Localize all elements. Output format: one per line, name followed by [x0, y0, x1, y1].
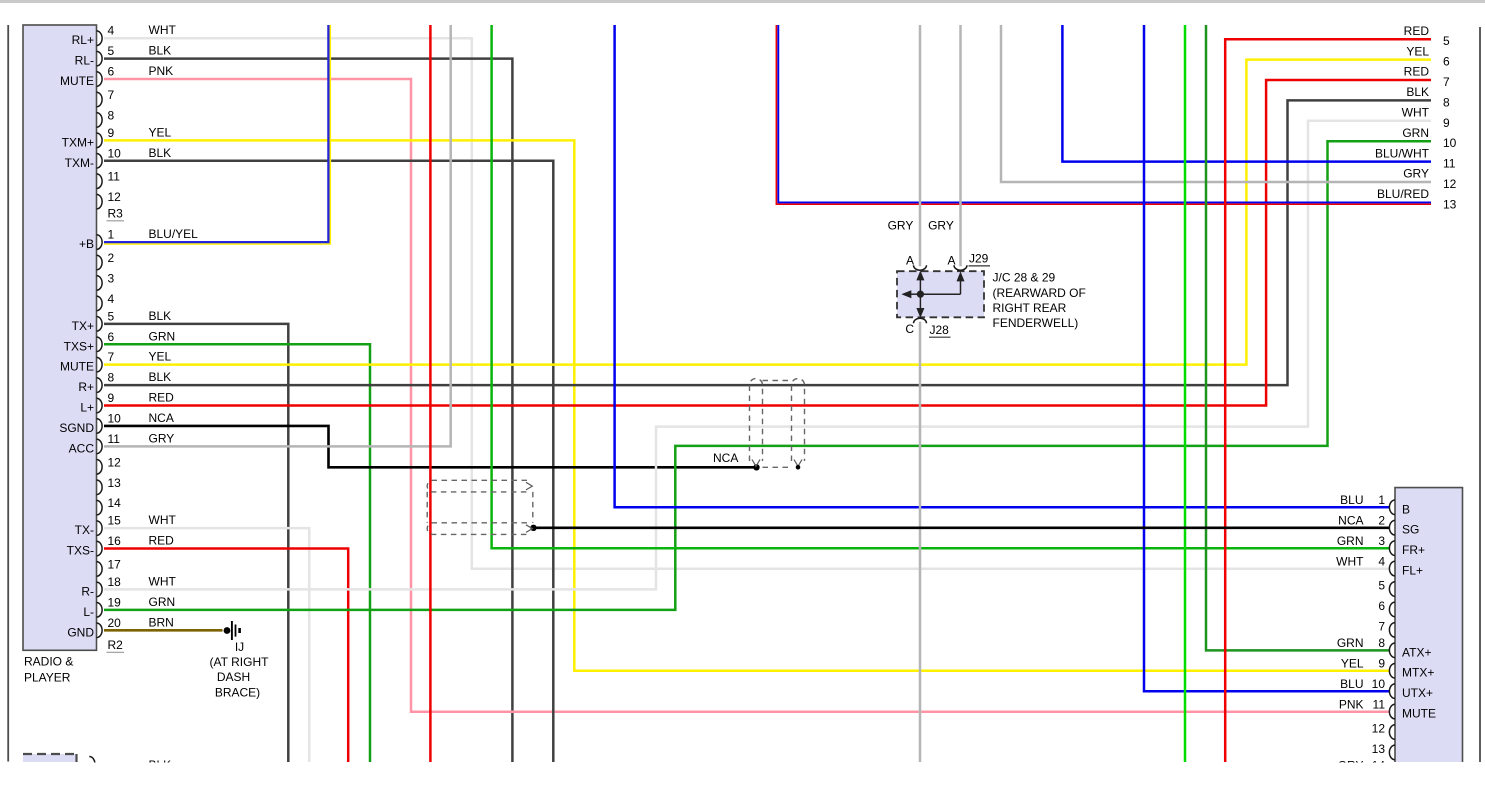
wire BLU/RED to right-top pin13 (blue)	[778, 25, 1431, 202]
wire BLK TXM- pin10 down	[104, 161, 553, 762]
svg-text:DASH: DASH	[217, 670, 250, 684]
wire WHT RL+ pin4 to right block FL+ pin4	[104, 38, 1390, 569]
wire PNK MUTE pin6 to right block MUTE pin11	[104, 79, 1390, 712]
svg-text:BLK: BLK	[149, 370, 172, 384]
wire NCA shield B drain to right block SG pin2	[534, 526, 1391, 529]
svg-text:12: 12	[1443, 177, 1457, 191]
svg-text:1: 1	[108, 228, 115, 242]
svg-text:(REARWARD OF: (REARWARD OF	[993, 286, 1086, 300]
svg-text:7: 7	[108, 350, 115, 364]
wire GRN dark x1206 to right block ATX+ pin8	[1206, 25, 1390, 650]
wire RED TXS- pin16 down	[104, 549, 348, 762]
dashed continuation connector block (bottom left)	[23, 754, 77, 762]
svg-text:PNK: PNK	[149, 64, 174, 78]
wire WHT R- pin18 to right-top pin9 WHT	[104, 121, 1431, 590]
wire YEL MUTE pin7 to right-top pin6 YEL	[104, 60, 1431, 365]
wire GRY x1001 to right-top pin12	[1001, 25, 1431, 182]
svg-text:MTX+: MTX+	[1402, 666, 1434, 680]
svg-text:RED: RED	[1404, 24, 1430, 38]
svg-text:BRN: BRN	[149, 615, 174, 629]
svg-text:12: 12	[1372, 722, 1386, 736]
svg-text:11: 11	[108, 432, 121, 446]
svg-text:6: 6	[108, 330, 115, 344]
svg-text:13: 13	[108, 476, 122, 490]
svg-text:13: 13	[1443, 197, 1457, 211]
svg-text:MUTE: MUTE	[60, 74, 94, 88]
wire BLK R+ pin8 to right-top pin8 BLK	[104, 100, 1431, 385]
svg-text:TXS+: TXS+	[64, 339, 94, 353]
wire RED right-top pin5 down	[1225, 39, 1431, 762]
svg-text:11: 11	[1373, 697, 1386, 711]
wire BLU/WHT x1062 to right-top pin11	[1062, 25, 1431, 162]
svg-text:17: 17	[108, 557, 122, 571]
connector block RADIO & PLAYER	[23, 25, 97, 650]
svg-text:NCA: NCA	[1338, 513, 1363, 527]
svg-text:FR+: FR+	[1402, 543, 1425, 557]
svg-text:BLK: BLK	[1406, 85, 1429, 99]
svg-text:BLU/WHT: BLU/WHT	[1375, 146, 1430, 160]
svg-text:TXM+: TXM+	[62, 135, 94, 149]
svg-text:YEL: YEL	[1341, 656, 1364, 670]
svg-text:R2: R2	[108, 638, 124, 652]
svg-text:8: 8	[108, 371, 115, 385]
wire BLU/YEL +B pin1 up (yellow stripe)	[104, 25, 330, 244]
wire GRY below J/C 28 pin C	[919, 322, 922, 762]
svg-text:11: 11	[108, 170, 121, 184]
svg-text:8: 8	[1378, 636, 1385, 650]
wire GRY right to J/C 29 pin A	[959, 25, 962, 266]
svg-text:RL-: RL-	[75, 54, 94, 68]
svg-text:PNK: PNK	[1339, 697, 1364, 711]
svg-text:3: 3	[1378, 534, 1385, 548]
svg-text:RED: RED	[149, 391, 175, 405]
vertical wire RED full height x430	[429, 25, 432, 762]
svg-text:10: 10	[108, 411, 122, 425]
svg-text:R+: R+	[78, 380, 94, 394]
svg-text:SGND: SGND	[59, 421, 94, 435]
wire RED L+ pin9 to right-top pin7 RED	[104, 80, 1431, 406]
svg-text:GRN: GRN	[1337, 534, 1364, 548]
svg-text:L+: L+	[80, 401, 94, 415]
svg-text:IJ: IJ	[235, 640, 244, 654]
wire GRY left to J/C 28 pin A	[919, 25, 922, 266]
svg-text:10: 10	[108, 146, 122, 160]
J/C internal arrows	[903, 272, 963, 316]
vertical wire BLU x614 to right block B pin1	[615, 25, 1390, 507]
svg-text:6: 6	[1378, 599, 1385, 613]
pin arc fragment bottom left	[89, 757, 95, 772]
wire BLU/YEL +B pin1 up (blue)	[104, 25, 328, 242]
svg-text:J29: J29	[969, 252, 989, 266]
svg-text:GRY: GRY	[928, 219, 954, 233]
svg-text:MUTE: MUTE	[60, 360, 94, 374]
ground IJ (eyelet)	[224, 627, 231, 634]
svg-text:5: 5	[108, 44, 115, 58]
svg-text:5: 5	[1443, 34, 1450, 48]
svg-text:A: A	[906, 254, 914, 268]
svg-text:13: 13	[1372, 742, 1386, 756]
wire BLK RL- pin5 down	[104, 59, 512, 762]
svg-text:18: 18	[108, 575, 122, 589]
right cut-off connector edge	[1479, 27, 1481, 762]
svg-text:YEL: YEL	[149, 350, 172, 364]
svg-text:8: 8	[108, 108, 115, 122]
svg-text:5: 5	[108, 309, 115, 323]
svg-text:12: 12	[108, 190, 122, 204]
left cut-off connector edge	[7, 25, 9, 762]
svg-text:GRN: GRN	[1337, 636, 1364, 650]
svg-text:J28: J28	[930, 323, 950, 337]
svg-text:4: 4	[1378, 554, 1385, 568]
svg-text:WHT: WHT	[1336, 554, 1364, 568]
svg-text:FL+: FL+	[1402, 564, 1423, 578]
svg-text:GRN: GRN	[1402, 126, 1429, 140]
pin C arc (J28)	[914, 318, 927, 323]
svg-text:3: 3	[108, 271, 115, 285]
right connector block (amplifier)	[1395, 488, 1463, 762]
svg-text:9: 9	[1378, 656, 1385, 670]
svg-text:R-: R-	[81, 584, 94, 598]
svg-text:RIGHT REAR: RIGHT REAR	[993, 301, 1067, 315]
svg-text:9: 9	[1443, 116, 1450, 130]
pin arcs right block	[1389, 500, 1395, 515]
svg-text:YEL: YEL	[149, 125, 172, 139]
svg-text:BRACE): BRACE)	[215, 685, 260, 699]
svg-text:RED: RED	[1404, 65, 1430, 79]
svg-text:9: 9	[108, 126, 115, 140]
svg-text:(AT RIGHT: (AT RIGHT	[210, 655, 270, 669]
svg-text:C: C	[905, 322, 914, 336]
svg-text:WHT: WHT	[1402, 106, 1430, 120]
svg-text:11: 11	[1443, 157, 1456, 171]
svg-text:6: 6	[1443, 55, 1450, 69]
svg-text:1: 1	[1378, 493, 1385, 507]
svg-text:14: 14	[108, 496, 122, 510]
svg-text:J/C 28 & 29: J/C 28 & 29	[993, 271, 1056, 285]
svg-text:15: 15	[108, 514, 122, 528]
svg-text:NCA: NCA	[713, 451, 738, 465]
svg-text:BLU/YEL: BLU/YEL	[149, 227, 199, 241]
svg-text:BLK: BLK	[149, 44, 172, 58]
svg-text:GRY: GRY	[888, 219, 914, 233]
svg-text:4: 4	[108, 24, 115, 38]
svg-text:WHT: WHT	[149, 23, 177, 37]
svg-text:19: 19	[108, 595, 122, 609]
shield symbol B (horizontal twisted pair, at SG drain)	[427, 480, 533, 534]
junction dot NCA shield A	[753, 464, 759, 470]
svg-text:TXS-: TXS-	[67, 544, 94, 558]
svg-text:R3: R3	[108, 207, 124, 221]
svg-text:TX+: TX+	[72, 319, 94, 333]
svg-text:RED: RED	[149, 534, 175, 548]
junction dot NCA shield B	[530, 525, 536, 531]
wire YEL TXM+ pin9 to right block MTX+ pin9	[104, 140, 1390, 670]
svg-text:2: 2	[1378, 513, 1385, 527]
pin A arc (J29)	[954, 265, 967, 270]
svg-text:BLK: BLK	[149, 309, 172, 323]
top scrollbar strip	[0, 0, 1485, 3]
svg-text:9: 9	[108, 391, 115, 405]
vertical wire GRN bright x1185 full height	[1184, 25, 1187, 762]
svg-text:RADIO &: RADIO &	[24, 654, 73, 668]
svg-text:A: A	[947, 254, 955, 268]
svg-text:BLK: BLK	[149, 146, 172, 160]
svg-text:12: 12	[108, 455, 122, 469]
svg-text:GRY: GRY	[1403, 167, 1429, 181]
svg-text:GRN: GRN	[149, 595, 176, 609]
wire BLU/RED to right-top pin13 (red)	[776, 25, 1431, 204]
wire GRN TXS+ pin6 down	[104, 344, 370, 762]
svg-text:ACC: ACC	[69, 441, 95, 455]
svg-text:4: 4	[108, 292, 115, 306]
svg-text:MUTE: MUTE	[1402, 707, 1436, 721]
wire GRN L- pin19 to right-top pin10 GRN	[104, 141, 1431, 610]
junction connector J/C 28 & 29 block	[897, 271, 984, 317]
svg-text:NCA: NCA	[149, 411, 174, 425]
svg-text:WHT: WHT	[149, 574, 177, 588]
svg-text:SG: SG	[1402, 523, 1419, 537]
svg-text:10: 10	[1443, 136, 1457, 150]
svg-text:TXM-: TXM-	[65, 156, 94, 170]
svg-text:TX-: TX-	[75, 523, 94, 537]
shield symbol A (vertical twisted pair, at NCA drain)	[750, 379, 805, 468]
svg-text:6: 6	[108, 65, 115, 79]
svg-text:L-: L-	[83, 605, 94, 619]
white mask below diagram bottom edge	[0, 763, 1485, 791]
wire BRN GND pin20 to IJ ground	[104, 629, 223, 632]
svg-text:B: B	[1402, 502, 1410, 516]
wire BLK TX+ pin5 down	[104, 324, 288, 762]
svg-text:16: 16	[108, 534, 122, 548]
svg-text:GND: GND	[67, 625, 94, 639]
svg-text:WHT: WHT	[149, 513, 177, 527]
svg-text:UTX+: UTX+	[1402, 686, 1433, 700]
wire WHT TX- pin15 down	[104, 528, 309, 762]
wire BLU x1144 to right block UTX+ pin10	[1144, 25, 1390, 691]
svg-text:2: 2	[108, 251, 115, 265]
svg-text:GRN: GRN	[149, 329, 176, 343]
svg-text:YEL: YEL	[1406, 44, 1429, 58]
svg-text:7: 7	[108, 88, 115, 102]
svg-text:BLU/RED: BLU/RED	[1377, 187, 1429, 201]
pin A arc (J28)	[914, 265, 927, 270]
svg-text:RL+: RL+	[72, 33, 94, 47]
pin arcs left block	[97, 31, 103, 46]
svg-text:GRY: GRY	[149, 431, 175, 445]
svg-text:FENDERWELL): FENDERWELL)	[993, 316, 1079, 330]
svg-text:PLAYER: PLAYER	[24, 670, 71, 684]
svg-text:20: 20	[108, 616, 122, 630]
svg-text:7: 7	[1378, 620, 1385, 634]
vertical wire GRN x491 to right block FR+ pin3	[492, 25, 1390, 548]
svg-text:+B: +B	[79, 237, 94, 251]
svg-text:10: 10	[1372, 677, 1386, 691]
svg-text:BLU: BLU	[1340, 493, 1363, 507]
svg-text:8: 8	[1443, 95, 1450, 109]
svg-text:7: 7	[1443, 75, 1450, 89]
wire NCA SGND pin10 to shield drain dot	[104, 426, 755, 467]
svg-text:BLU: BLU	[1340, 677, 1363, 691]
wire GRY ACC pin11 up	[104, 25, 451, 446]
svg-text:5: 5	[1378, 579, 1385, 593]
svg-text:ATX+: ATX+	[1402, 645, 1431, 659]
